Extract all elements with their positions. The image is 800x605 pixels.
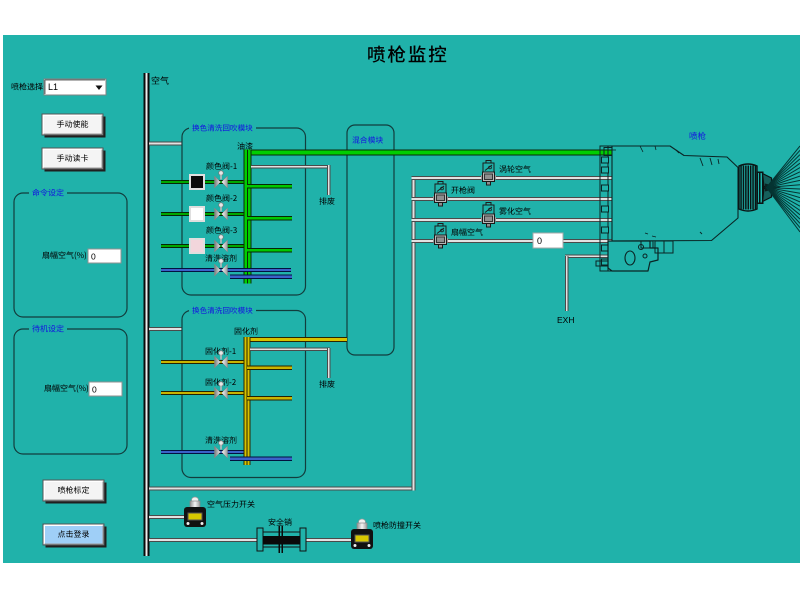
svg-text:0: 0 xyxy=(91,252,96,262)
svg-text:0: 0 xyxy=(537,236,542,246)
svg-text:EXH: EXH xyxy=(557,315,574,325)
svg-text:0: 0 xyxy=(92,385,97,395)
svg-text:L1: L1 xyxy=(48,82,58,92)
